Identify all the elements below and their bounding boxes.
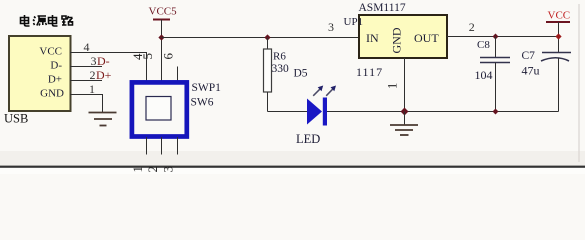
svg-text:104: 104 xyxy=(475,68,493,82)
svg-text:D5: D5 xyxy=(294,68,308,80)
junction C8 top xyxy=(493,34,499,40)
junction VCC5 rail xyxy=(158,34,164,40)
LED D5 symbol xyxy=(307,98,327,126)
svg-text:D+: D+ xyxy=(96,68,112,82)
svg-text:GND: GND xyxy=(390,27,404,53)
pin 4 wire (VCC) xyxy=(70,53,147,83)
USB connector box xyxy=(9,36,71,111)
wire LED to ground rail xyxy=(327,111,559,113)
svg-text:3: 3 xyxy=(161,166,176,173)
title 电源电路 xyxy=(21,15,74,26)
svg-text:LED: LED xyxy=(296,132,320,146)
svg-text:VCC5: VCC5 xyxy=(149,6,178,18)
switch bottom leg 1 xyxy=(146,137,148,155)
switch SW6 outer body xyxy=(132,82,187,136)
regulator UP1 ASM1117 body xyxy=(359,15,447,58)
svg-text:GND: GND xyxy=(40,88,64,100)
svg-text:47u: 47u xyxy=(522,64,540,78)
switch bottom leg 2 xyxy=(161,137,163,155)
svg-text:3: 3 xyxy=(328,20,334,34)
svg-text:D+: D+ xyxy=(48,74,62,86)
svg-text:2: 2 xyxy=(145,166,160,173)
电 xyxy=(49,15,58,26)
svg-text:ASM1117: ASM1117 xyxy=(359,2,406,14)
svg-text:OUT: OUT xyxy=(414,31,439,45)
svg-text:1: 1 xyxy=(89,82,95,96)
pin 3 wire xyxy=(70,66,102,68)
capacitor C7 (polarized) xyxy=(541,53,571,112)
电 xyxy=(21,15,30,26)
svg-text:5: 5 xyxy=(140,53,155,60)
svg-text:VCC: VCC xyxy=(39,46,62,58)
ground (USB) xyxy=(89,113,117,126)
switch inner square xyxy=(146,97,171,121)
svg-text:VCC: VCC xyxy=(548,10,571,22)
power port VCC xyxy=(546,10,570,53)
svg-text:6: 6 xyxy=(161,53,176,60)
svg-text:C7: C7 xyxy=(522,50,536,62)
ground (regulator) xyxy=(390,112,418,136)
svg-text:330: 330 xyxy=(272,63,290,75)
svg-text:USB: USB xyxy=(4,112,28,126)
svg-text:1117: 1117 xyxy=(356,65,383,79)
pin 2 wire xyxy=(70,80,102,82)
wire R6 to LED xyxy=(268,111,309,113)
svg-text:2: 2 xyxy=(90,68,96,82)
switch bottom leg 3 xyxy=(177,137,179,155)
junction C8 bottom xyxy=(493,109,499,115)
svg-text:1: 1 xyxy=(386,83,400,89)
svg-text:R6: R6 xyxy=(273,51,286,63)
svg-text:4: 4 xyxy=(84,40,90,54)
bottom border line xyxy=(0,166,585,168)
wire main rail xyxy=(162,37,360,39)
svg-text:C8: C8 xyxy=(477,39,490,51)
right edge faint line xyxy=(578,4,580,162)
pin 1 wire xyxy=(70,95,103,113)
resistor R6 xyxy=(264,38,272,112)
svg-text:1: 1 xyxy=(130,166,145,173)
svg-text:D-: D- xyxy=(97,54,110,68)
svg-text:3: 3 xyxy=(91,54,97,68)
路 xyxy=(62,16,73,25)
power port VCC5 xyxy=(149,6,178,83)
junction R6 top xyxy=(264,34,270,40)
svg-text:D-: D- xyxy=(50,60,62,72)
wire OUT net xyxy=(447,36,559,38)
源 xyxy=(33,16,47,26)
svg-text:SW6: SW6 xyxy=(191,97,214,109)
svg-text:IN: IN xyxy=(366,31,379,45)
svg-text:2: 2 xyxy=(469,20,475,34)
svg-text:UP1: UP1 xyxy=(344,16,364,28)
switch pin 6 stub xyxy=(177,67,179,83)
regulator pin 1 wire xyxy=(404,58,406,112)
LED arrow 2 xyxy=(326,86,336,96)
svg-text:SWP1: SWP1 xyxy=(192,82,222,94)
junction VCC / OUT xyxy=(555,33,561,39)
LED arrow 1 xyxy=(313,86,323,96)
capacitor C8 xyxy=(480,37,510,112)
junction ground node xyxy=(401,108,409,116)
